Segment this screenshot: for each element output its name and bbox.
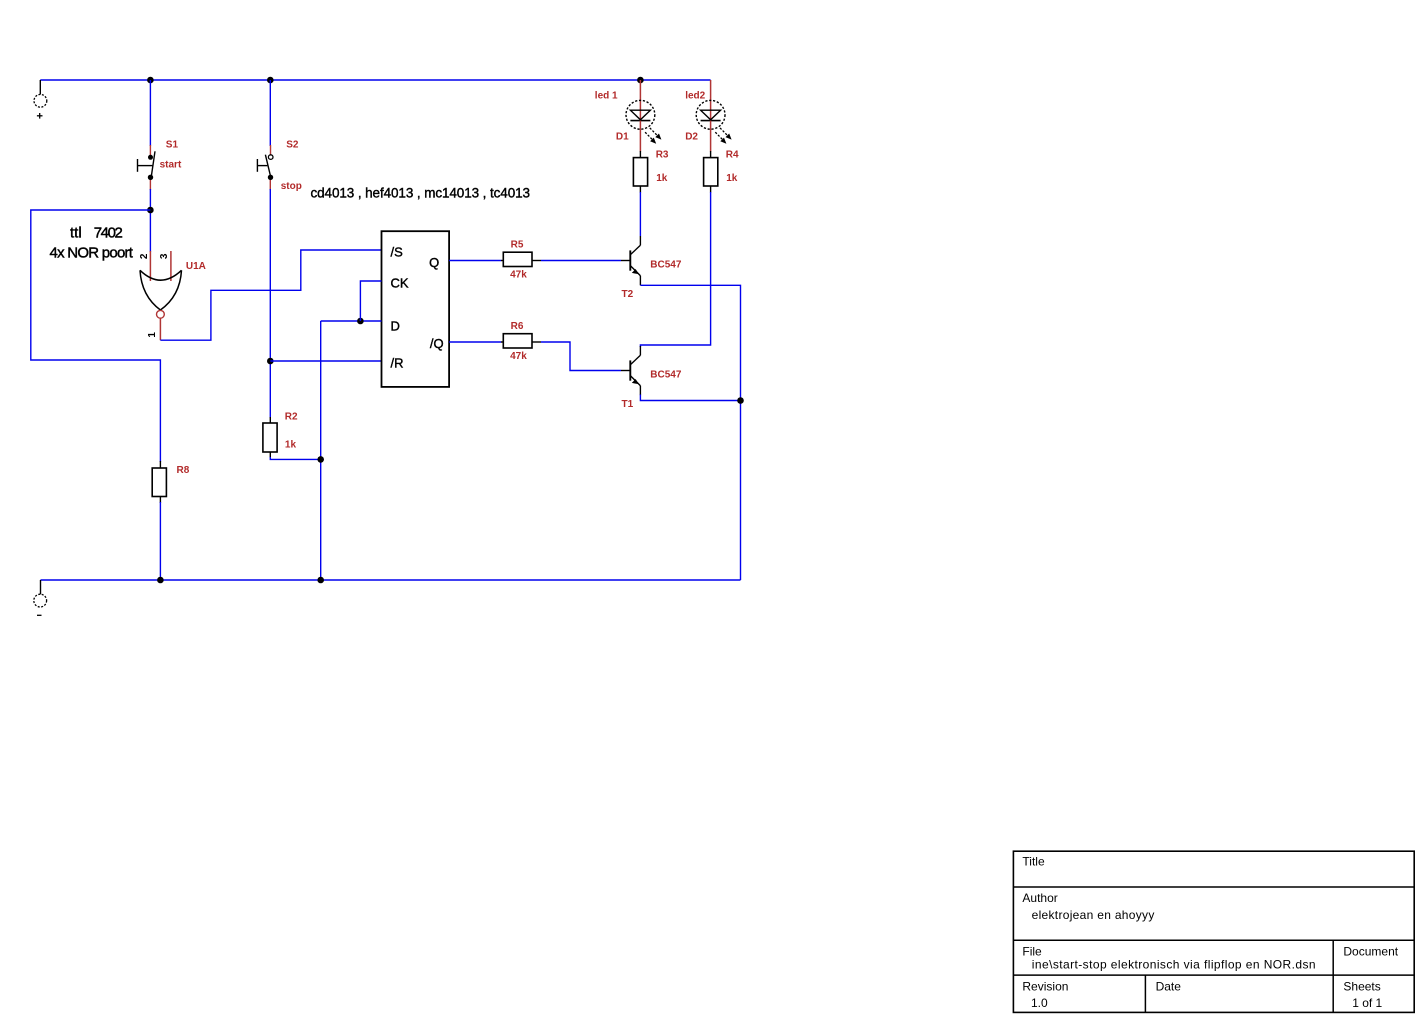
transistor Q2 (T2) bbox=[621, 236, 640, 285]
pin D1 cathode bbox=[639, 121, 641, 152]
resistor R3 bbox=[633, 151, 647, 193]
svg-text:R3: R3 bbox=[656, 150, 669, 161]
wire CK net bbox=[360, 281, 381, 321]
svg-text:Sheets: Sheets bbox=[1343, 980, 1380, 994]
wire Q to R5 bbox=[449, 260, 501, 262]
wire R4 to T1 collector bbox=[640, 192, 710, 347]
LED D1 bbox=[626, 100, 661, 142]
wire R6 to T1 base bbox=[541, 342, 621, 371]
junction T1 emitter / right vertical bbox=[737, 397, 744, 404]
svg-text:Title: Title bbox=[1022, 855, 1045, 869]
label T1 bbox=[622, 399, 634, 410]
pin D2 cathode bbox=[710, 121, 712, 152]
svg-text:stop: stop bbox=[281, 181, 302, 192]
label cd4013 hef4013 mc14013 tc4013 bbox=[311, 186, 530, 201]
wire /R net bbox=[270, 360, 381, 362]
pin S1 pin2 bbox=[149, 178, 151, 190]
svg-text:/S: /S bbox=[391, 244, 404, 259]
wire S1 bottom to NOR pin2 bbox=[149, 189, 151, 252]
svg-text:R6: R6 bbox=[511, 321, 524, 332]
svg-text:R2: R2 bbox=[285, 412, 298, 423]
pin U1A pin3 bbox=[170, 251, 172, 281]
label U1A bbox=[186, 261, 206, 272]
pin number 2 bbox=[139, 253, 150, 259]
junction top rail / D1 bbox=[637, 77, 644, 84]
label R5 bbox=[511, 239, 524, 250]
svg-text:/Q: /Q bbox=[430, 336, 444, 351]
junction R8/rail bbox=[157, 577, 164, 584]
flip-flop U2 box bbox=[382, 231, 450, 387]
wire top rail corner to D2 bbox=[710, 80, 712, 120]
svg-text:CK: CK bbox=[391, 276, 409, 291]
label R6 bbox=[511, 321, 524, 332]
wire left net to R8 bbox=[31, 210, 161, 462]
svg-text:cd4013 , hef4013 , mc14013 , t: cd4013 , hef4013 , mc14013 , tc4013 bbox=[311, 186, 530, 201]
svg-text:1k: 1k bbox=[285, 439, 297, 450]
wire /Q to R6 bbox=[449, 341, 501, 343]
svg-text:Document: Document bbox=[1343, 945, 1398, 959]
label S1 bbox=[166, 139, 179, 150]
label stop bbox=[281, 181, 302, 192]
svg-text:47k: 47k bbox=[510, 351, 527, 362]
svg-text:R8: R8 bbox=[177, 465, 190, 476]
label R3 bbox=[656, 150, 669, 161]
pin S2 pin2 bbox=[269, 178, 271, 190]
svg-text:R5: R5 bbox=[511, 239, 524, 250]
value 47k R6 bbox=[510, 351, 527, 362]
label start bbox=[160, 159, 182, 170]
resistor R5 bbox=[501, 252, 541, 266]
pin U1A pin1 output bbox=[159, 318, 161, 340]
svg-text:4x NOR poort: 4x NOR poort bbox=[50, 245, 134, 262]
terminal - bbox=[34, 580, 47, 615]
label R4 bbox=[726, 150, 739, 161]
svg-text:1: 1 bbox=[147, 332, 158, 338]
value 1k R3 bbox=[656, 173, 668, 184]
svg-text:/R: /R bbox=[391, 355, 404, 370]
svg-text:elektrojean en ahoyyy: elektrojean en ahoyyy bbox=[1032, 908, 1155, 922]
svg-text:ine\start-stop elektronisch vi: ine\start-stop elektronisch via flipflop… bbox=[1032, 958, 1316, 972]
svg-text:T2: T2 bbox=[622, 289, 634, 300]
svg-text:47k: 47k bbox=[510, 269, 527, 280]
svg-text:3: 3 bbox=[159, 253, 170, 259]
wire D net horizontal bbox=[321, 320, 382, 322]
wire S1 top bbox=[149, 80, 151, 146]
transistor Q1 (T1) bbox=[621, 346, 640, 395]
svg-text:ttl: ttl bbox=[70, 225, 82, 242]
label led 1 bbox=[595, 91, 618, 102]
junction S1/left-net bbox=[147, 207, 154, 214]
junction top rail / S2 bbox=[267, 77, 274, 84]
label led2 bbox=[685, 91, 705, 102]
wire T1 emitter bbox=[640, 395, 740, 401]
label R8 bbox=[177, 465, 190, 476]
svg-text:U1A: U1A bbox=[186, 261, 206, 272]
terminal + bbox=[34, 80, 47, 119]
label 4x NOR poort bbox=[50, 245, 134, 262]
resistor R4 bbox=[704, 151, 718, 193]
svg-text:BC547: BC547 bbox=[650, 259, 682, 270]
switch S2 bbox=[257, 155, 273, 180]
U1A inversion bubble bbox=[157, 310, 165, 318]
junction R2/D-net bbox=[317, 456, 324, 463]
wire T2 emitter to right vertical bbox=[640, 285, 740, 580]
svg-text:led 1: led 1 bbox=[595, 91, 618, 102]
wire S2 top bbox=[269, 80, 271, 146]
svg-text:1k: 1k bbox=[726, 173, 738, 184]
resistor R8 bbox=[152, 461, 166, 503]
svg-text:D2: D2 bbox=[685, 131, 698, 142]
wire R2 bottom to D net bbox=[270, 457, 320, 459]
wire U1A output to /S bbox=[160, 250, 381, 340]
label BC547 T2 bbox=[650, 259, 682, 270]
junction CK/D bbox=[357, 318, 364, 325]
svg-text:start: start bbox=[160, 159, 182, 170]
LED D2 bbox=[696, 100, 731, 142]
wire D net vertical bbox=[320, 321, 322, 580]
label S2 bbox=[286, 139, 299, 150]
title block bbox=[1013, 851, 1414, 1012]
junction D-net/rail bbox=[317, 577, 324, 584]
label T2 bbox=[622, 289, 634, 300]
svg-text:1.0: 1.0 bbox=[1031, 996, 1048, 1010]
value 47k R5 bbox=[510, 269, 527, 280]
svg-text:led2: led2 bbox=[685, 91, 705, 102]
label D1 bbox=[616, 131, 629, 142]
label ttl 7402 bbox=[70, 225, 123, 242]
pin S1 pin1 bbox=[149, 145, 151, 156]
svg-text:R4: R4 bbox=[726, 150, 739, 161]
label BC547 T1 bbox=[650, 369, 682, 380]
resistor R2 bbox=[263, 417, 277, 458]
op-amp U1A NOR gate body bbox=[140, 270, 182, 310]
pin number 1 bbox=[147, 332, 158, 338]
junction S2//R bbox=[267, 358, 274, 365]
svg-text:S2: S2 bbox=[286, 139, 299, 150]
svg-text:File: File bbox=[1022, 945, 1042, 959]
pin number 3 bbox=[159, 253, 170, 259]
wire R8 bottom to rail bbox=[159, 502, 161, 580]
label R2 bbox=[285, 412, 298, 423]
svg-text:S1: S1 bbox=[166, 139, 179, 150]
value 1k R4 bbox=[726, 173, 738, 184]
switch S1 bbox=[138, 151, 156, 180]
pin S2 pin1 bbox=[270, 145, 272, 155]
wire V+ top rail bbox=[40, 79, 710, 81]
svg-text:BC547: BC547 bbox=[650, 369, 682, 380]
svg-text:1 of 1: 1 of 1 bbox=[1352, 996, 1382, 1010]
svg-text:Author: Author bbox=[1022, 891, 1057, 905]
wire R3 to T2 collector bbox=[639, 192, 641, 236]
svg-text:D1: D1 bbox=[616, 131, 629, 142]
svg-text:Revision: Revision bbox=[1022, 980, 1068, 994]
pin U1A pin2 bbox=[149, 251, 151, 281]
svg-text:1k: 1k bbox=[656, 173, 668, 184]
svg-text:7402: 7402 bbox=[94, 225, 123, 242]
wire R5 to T2 base bbox=[541, 260, 621, 262]
value 1k R2 bbox=[285, 439, 297, 450]
svg-text:D: D bbox=[391, 319, 400, 334]
wire bottom rail bbox=[41, 579, 741, 581]
resistor R6 bbox=[501, 334, 541, 348]
label D2 bbox=[685, 131, 698, 142]
wire S2 bottom to R2 bbox=[269, 189, 271, 418]
junction top rail / S1 bbox=[147, 77, 154, 84]
svg-text:Date: Date bbox=[1156, 980, 1182, 994]
pin D1 anode bbox=[639, 80, 641, 120]
svg-text:Q: Q bbox=[429, 255, 439, 270]
svg-text:2: 2 bbox=[139, 253, 150, 259]
svg-text:T1: T1 bbox=[622, 399, 634, 410]
